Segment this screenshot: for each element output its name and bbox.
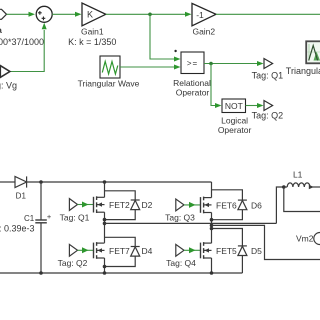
wire branch below L1 [284, 187, 320, 212]
svg-text:K: k = 1/350: K: k = 1/350 [68, 37, 116, 47]
wire junction down to NOT [211, 64, 217, 106]
svg-text:+: + [47, 212, 52, 221]
svg-text:D4: D4 [142, 246, 153, 256]
node midpoint left leg [103, 222, 107, 226]
node junction [209, 62, 213, 66]
tag Q4 to FET5 gate [176, 244, 184, 256]
arrowhead into sum [29, 12, 36, 17]
relational operator block [181, 52, 204, 74]
node [39, 180, 43, 184]
node [210, 271, 214, 275]
diode D6 loop [212, 190, 243, 200]
voltage measurement Vm2 (clipped) [314, 233, 320, 245]
arrowhead into Tag Q1 [257, 61, 264, 66]
svg-text:FET7: FET7 [109, 246, 130, 256]
arrowhead into relational op input 2 [174, 65, 181, 70]
arrowhead into Tag Q2 [257, 103, 264, 108]
svg-text:Tag: Q1: Tag: Q1 [60, 213, 90, 223]
diode D4 loop [105, 237, 136, 246]
wire top rail [27, 181, 212, 183]
svg-text:Triangular Wave: Triangular Wave [78, 78, 140, 88]
diode D1 [15, 176, 27, 187]
svg-text:>=: >= [187, 59, 198, 68]
node junction [148, 13, 152, 17]
svg-text:Tag: Q4: Tag: Q4 [166, 258, 196, 268]
svg-text:D2: D2 [142, 200, 153, 210]
wire left output up to L1 [276, 187, 283, 223]
tag Vg (clipped) [0, 66, 10, 78]
tag Q1 to FET2 gate [69, 199, 77, 211]
sample time dot [174, 50, 176, 52]
svg-text:Tag: Q2: Tag: Q2 [58, 258, 88, 268]
svg-text:FET2: FET2 [109, 200, 130, 210]
svg-text:Tag: Q3: Tag: Q3 [165, 213, 195, 223]
goto tag Q2 [264, 101, 273, 111]
svg-text:L1: L1 [293, 169, 303, 179]
transistor FET2 [93, 197, 95, 213]
wire from tag to sum [7, 13, 32, 15]
inductor L1 [284, 186, 287, 188]
wire Vg tag up to sum [10, 30, 44, 72]
arrowhead into Gain1 [75, 12, 82, 17]
triangular wave source block [100, 56, 120, 78]
svg-text:Tag: Q1: Tag: Q1 [252, 70, 284, 80]
svg-text:NOT: NOT [225, 101, 243, 111]
transistor FET5 [200, 243, 202, 259]
svg-text:Tag: Q2: Tag: Q2 [252, 110, 284, 120]
transistor FET7 [93, 243, 95, 259]
scope block (clipped at right edge) [306, 41, 320, 63]
svg-text:D6: D6 [251, 200, 262, 210]
svg-text:FET6: FET6 [216, 200, 237, 210]
gain Gain1 [82, 3, 106, 26]
node [103, 180, 107, 184]
wire NOT to Tag Q2 [246, 105, 259, 107]
diode D2 loop [105, 191, 136, 200]
svg-text:Vm2: Vm2 [296, 233, 314, 243]
svg-text:Triangular Wa: Triangular Wa [286, 66, 320, 76]
gain Gain2 [192, 3, 216, 25]
logical operator NOT block [222, 99, 246, 113]
svg-text:D5: D5 [251, 246, 262, 256]
svg-text:Tag: Vg: Tag: Vg [0, 81, 17, 91]
wire Gain1 to Gain2 [106, 13, 187, 15]
transistor FET6 [200, 197, 202, 213]
arrowhead into NOT [215, 103, 222, 108]
node [39, 271, 43, 275]
wire Gain2 to right edge [216, 13, 320, 15]
wire right bridge output [212, 225, 320, 259]
wire triangular wave to relational input 2 [120, 66, 176, 68]
node [282, 185, 286, 189]
node midpoint right leg [210, 224, 214, 228]
svg-text:K: K [87, 10, 93, 20]
wire branch down to relational input [150, 14, 176, 59]
svg-text:C: 0.39e-3: C: 0.39e-3 [0, 223, 35, 233]
svg-text:Operator: Operator [176, 88, 210, 98]
svg-text:Gain1: Gain1 [81, 27, 104, 37]
sum block [36, 6, 52, 22]
svg-text:Gain2: Gain2 [192, 27, 215, 37]
wire bottom rail [0, 272, 242, 274]
wire sum to Gain1 [52, 13, 77, 15]
svg-text:-1: -1 [196, 10, 204, 20]
tag Q2 to FET7 gate [69, 244, 77, 256]
capacitor C1 [40, 182, 42, 220]
svg-text:D1: D1 [16, 191, 27, 200]
goto tag Q1 [264, 59, 273, 69]
wire left bridge output [105, 222, 277, 224]
wire top rail left [0, 181, 15, 183]
from tag (clipped at left edge) [0, 9, 7, 19]
node [103, 271, 107, 275]
svg-text:Operator: Operator [218, 125, 252, 135]
tag Q3 to FET6 gate [176, 199, 184, 211]
arrowhead into Gain2 [185, 12, 192, 17]
wire relational output to Tag Q1 [204, 63, 259, 65]
svg-text:400*37/1000: 400*37/1000 [0, 37, 44, 47]
arrowhead into relational op input 1 [174, 57, 181, 62]
svg-text:FET5: FET5 [216, 246, 237, 256]
diode D5 loop [212, 229, 243, 246]
svg-text:C1: C1 [24, 214, 35, 223]
arrowhead up into sum [42, 23, 47, 30]
